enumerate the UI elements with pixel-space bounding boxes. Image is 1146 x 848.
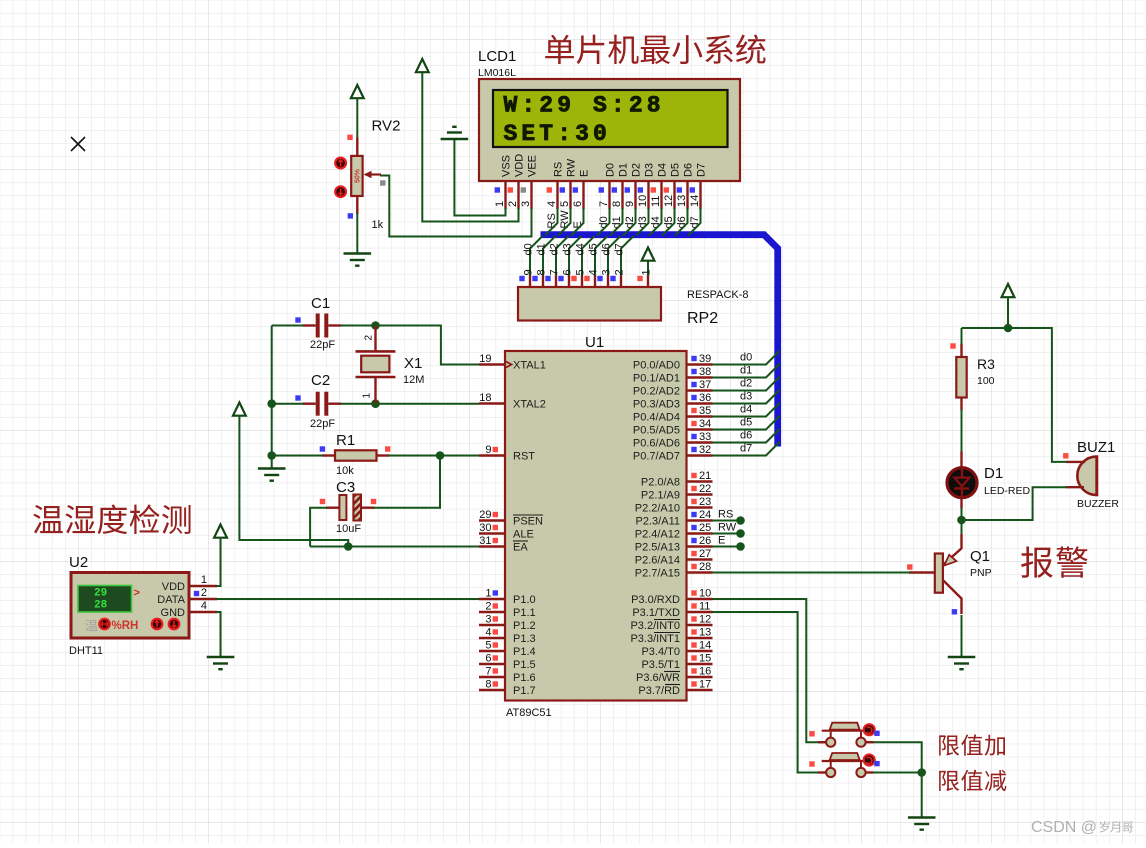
- net labels d0-d7 at U1: [740, 352, 752, 455]
- wire RV2 to ground: [356, 213, 358, 253]
- svg-text:d6: d6: [740, 430, 752, 442]
- svg-text:32: 32: [699, 444, 711, 456]
- wire R3 to D1: [961, 410, 963, 453]
- svg-text:10k: 10k: [336, 465, 354, 477]
- svg-text:W:29 S:28: W:29 S:28: [504, 93, 665, 119]
- svg-text:XTAL2: XTAL2: [513, 399, 546, 411]
- svg-text:21: 21: [699, 470, 711, 482]
- svg-text:2: 2: [507, 201, 519, 207]
- svg-text:d0: d0: [523, 243, 535, 255]
- wire to buttons ground: [921, 773, 923, 818]
- U1 right pin numbers: [691, 353, 711, 691]
- node R1 left: [267, 451, 276, 460]
- RV2 label: [372, 118, 401, 135]
- svg-text:29: 29: [479, 509, 491, 521]
- wire node to buzzer bottom: [962, 487, 1068, 520]
- svg-text:6: 6: [562, 269, 574, 275]
- svg-text:P3.7/RD: P3.7/RD: [638, 685, 680, 697]
- svg-text:25: 25: [699, 522, 711, 534]
- svg-text:BUZ1: BUZ1: [1077, 439, 1115, 456]
- svg-text:P3.1/TXD: P3.1/TXD: [632, 607, 680, 619]
- power arrow for LCD VDD: [416, 59, 429, 72]
- svg-text:PNP: PNP: [970, 567, 992, 579]
- node C2 left: [267, 399, 276, 408]
- svg-text:d2: d2: [624, 216, 636, 228]
- svg-text:d1: d1: [740, 365, 752, 377]
- svg-text:U2: U2: [69, 554, 88, 571]
- SW1 left pin: [818, 741, 826, 743]
- ground below Q1: [948, 657, 976, 669]
- U2 label: [69, 554, 88, 571]
- svg-text:P2.0/A8: P2.0/A8: [641, 477, 680, 489]
- ground below buttons: [908, 818, 936, 830]
- LCD LM016L label: [478, 67, 516, 79]
- RESPACK-8 label: [687, 289, 749, 301]
- wire RP2 pin1 to power: [647, 260, 649, 276]
- svg-text:5: 5: [559, 201, 571, 207]
- svg-text:28: 28: [94, 600, 108, 612]
- wire VCC node alarm: [962, 297, 1052, 328]
- svg-text:RW: RW: [566, 158, 578, 177]
- svg-text:6: 6: [485, 653, 491, 665]
- button SW1 (限值加): [822, 723, 875, 747]
- wire R1 left: [272, 455, 323, 457]
- svg-text:d6: d6: [601, 243, 613, 255]
- svg-text:P1.0: P1.0: [513, 594, 536, 606]
- svg-text:9: 9: [485, 444, 491, 456]
- svg-text:36: 36: [699, 392, 711, 404]
- wire R1 right to RST: [389, 455, 480, 457]
- svg-text:22: 22: [699, 483, 711, 495]
- Q1 value PNP: [970, 567, 992, 579]
- svg-text:R1: R1: [336, 432, 355, 449]
- svg-text:50%: 50%: [355, 168, 362, 183]
- svg-text:CSDN @: CSDN @: [1031, 819, 1097, 836]
- svg-text:d7: d7: [614, 243, 626, 255]
- svg-text:P2.3/A11: P2.3/A11: [636, 516, 680, 528]
- X1 pin number 2: [364, 335, 375, 341]
- power arrow for U2 VDD: [214, 525, 227, 538]
- X1 value 12M: [403, 374, 424, 386]
- Q1 label: [970, 548, 990, 565]
- svg-text:17: 17: [699, 679, 711, 691]
- svg-text:RESPACK-8: RESPACK-8: [687, 289, 749, 301]
- wire VCC to R3: [961, 328, 963, 345]
- svg-text:P2.2/A10: P2.2/A10: [635, 503, 680, 515]
- svg-text:37: 37: [699, 379, 711, 391]
- svg-text:39: 39: [699, 353, 711, 365]
- U2 value DHT11: [69, 645, 103, 657]
- svg-text:2: 2: [485, 601, 491, 613]
- ground below U2: [207, 657, 235, 669]
- R3 value 100: [977, 375, 995, 387]
- svg-text:19: 19: [479, 353, 491, 365]
- svg-text:P1.5: P1.5: [513, 659, 536, 671]
- svg-text:d4: d4: [650, 216, 662, 228]
- svg-text:8: 8: [536, 269, 548, 275]
- svg-text:d4: d4: [575, 243, 587, 255]
- svg-text:P2.5/A13: P2.5/A13: [635, 542, 680, 554]
- svg-text:D1: D1: [618, 163, 630, 177]
- ground (flipped) for LCD VSS: [441, 127, 469, 139]
- svg-text:RP2: RP2: [687, 310, 718, 327]
- watermark CSDN: [1031, 819, 1133, 836]
- U1 right pin names: [630, 360, 680, 698]
- SW2 left pin: [818, 771, 826, 773]
- svg-text:d2: d2: [549, 243, 561, 255]
- svg-text:d1: d1: [611, 216, 623, 228]
- wire C3 left to EA line: [310, 508, 327, 547]
- svg-text:VEE: VEE: [527, 155, 539, 177]
- wire U2 VDD to power: [216, 537, 221, 586]
- svg-text:P1.2: P1.2: [513, 620, 536, 632]
- svg-text:P3.2/INT0: P3.2/INT0: [630, 620, 680, 632]
- svg-text:d0: d0: [598, 216, 610, 228]
- svg-text:9: 9: [624, 201, 636, 207]
- svg-text:100: 100: [977, 375, 995, 387]
- svg-text:1: 1: [201, 574, 207, 586]
- svg-text:d2: d2: [740, 378, 752, 390]
- resistor R1: [322, 450, 390, 460]
- svg-text:d4: d4: [740, 404, 752, 416]
- svg-text:P0.1/AD1: P0.1/AD1: [633, 373, 680, 385]
- wires LCD data pins to bus: [545, 208, 701, 236]
- X1 pin2 wire: [374, 326, 376, 352]
- C1 label: [311, 295, 330, 312]
- power arrow above RV2: [351, 85, 364, 98]
- LCD LCD1 label: [478, 48, 516, 65]
- svg-text:P3.3/INT1: P3.3/INT1: [630, 633, 680, 645]
- svg-text:11: 11: [650, 196, 662, 207]
- capacitor C3 (electrolytic): [326, 495, 375, 521]
- resistor R3: [956, 344, 966, 411]
- RP2 pins: [530, 275, 648, 289]
- svg-text:38: 38: [699, 366, 711, 378]
- svg-text:D2: D2: [631, 163, 643, 177]
- svg-text:P0.2/AD2: P0.2/AD2: [633, 386, 680, 398]
- LCD screen text line1: [504, 93, 665, 119]
- svg-text:d7: d7: [689, 216, 701, 228]
- node X1 pin2: [371, 321, 380, 330]
- svg-text:D3: D3: [644, 163, 656, 177]
- svg-text:d6: d6: [676, 216, 688, 228]
- svg-text:AT89C51: AT89C51: [506, 707, 552, 719]
- label 限值减: [939, 770, 1006, 791]
- wire EA line: [310, 546, 479, 548]
- svg-text:P1.3: P1.3: [513, 633, 536, 645]
- U2 DATA status square: [194, 591, 199, 596]
- svg-text:P0.5/AD5: P0.5/AD5: [633, 425, 680, 437]
- svg-text:4: 4: [201, 600, 207, 612]
- svg-text:P3.6/WR: P3.6/WR: [636, 672, 680, 684]
- wire SW1 right to ground net: [866, 742, 922, 772]
- wire Q1 collector to ground: [961, 615, 963, 657]
- Q1 base status square: [907, 564, 912, 569]
- U1 body AT89C51: [505, 351, 687, 701]
- wire left vertical C1-C2-R1: [271, 326, 273, 457]
- svg-text:13: 13: [699, 627, 711, 639]
- svg-text:22pF: 22pF: [310, 339, 335, 351]
- svg-text:2: 2: [201, 587, 207, 599]
- C3 value 10uF: [336, 523, 361, 535]
- C2 label: [311, 372, 330, 389]
- C1 value 22pF: [310, 339, 335, 351]
- X1 pin number 1: [362, 393, 373, 399]
- LCD pin name labels: [501, 154, 708, 177]
- svg-text:4: 4: [588, 269, 600, 275]
- svg-text:28: 28: [699, 561, 711, 573]
- svg-text:P1.1: P1.1: [513, 607, 536, 619]
- svg-text:ALE: ALE: [513, 529, 534, 541]
- svg-text:31: 31: [479, 535, 491, 547]
- U2 screen: [78, 586, 132, 613]
- svg-text:P2.4/A12: P2.4/A12: [635, 529, 680, 541]
- wire VEE to RV2 wiper: [380, 176, 532, 237]
- svg-text:26: 26: [699, 535, 711, 547]
- RV2 top pin: [356, 138, 358, 157]
- BUZ1 label: [1077, 439, 1115, 456]
- wire C1 right to XTAL1: [340, 326, 479, 365]
- svg-text:XTAL1: XTAL1: [513, 360, 546, 372]
- LCD screen text line2: [504, 121, 611, 147]
- C3 label: [336, 479, 355, 496]
- svg-text:%RH: %RH: [112, 620, 139, 632]
- RV2 top status square: [347, 135, 352, 140]
- RV2 adjust up icon: [335, 158, 346, 169]
- wire C2 right to XTAL2: [340, 403, 479, 405]
- wire VDD to power: [422, 71, 518, 222]
- wires RP2 pins to bus: [530, 236, 634, 276]
- node alarm VCC: [1004, 324, 1013, 333]
- svg-text:P0.7/AD7: P0.7/AD7: [633, 451, 680, 463]
- wire U2 DATA to U1 P1.0: [216, 598, 479, 600]
- svg-text:d5: d5: [663, 216, 675, 228]
- label 温湿度检测: [33, 504, 190, 534]
- svg-text:E: E: [718, 535, 725, 547]
- wire C3 right to RST node: [374, 456, 441, 508]
- SW1 status squares: [809, 731, 879, 737]
- svg-text:X1: X1: [404, 355, 422, 372]
- C2 status square: [295, 395, 300, 400]
- origin marker X: [71, 137, 85, 151]
- svg-text:P1.7: P1.7: [513, 685, 536, 697]
- LCD screen: [493, 90, 728, 147]
- svg-text:4: 4: [485, 627, 491, 639]
- svg-text:22pF: 22pF: [310, 418, 335, 430]
- svg-text:5: 5: [575, 269, 587, 275]
- svg-text:4: 4: [546, 201, 558, 207]
- capacitor C1: [303, 314, 342, 338]
- RV2 adjust down icon: [335, 186, 346, 197]
- crystal X1: [356, 351, 396, 377]
- C2 value 22pF: [310, 418, 335, 430]
- svg-text:P0.3/AD3: P0.3/AD3: [633, 399, 680, 411]
- R1 status squares: [320, 446, 391, 451]
- wire C2 left: [272, 403, 304, 405]
- svg-text:30: 30: [479, 522, 491, 534]
- svg-text:10uF: 10uF: [336, 523, 361, 535]
- svg-text:3: 3: [485, 614, 491, 626]
- button SW2 (限值减): [822, 753, 875, 777]
- svg-text:RV2: RV2: [372, 118, 401, 135]
- svg-text:d3: d3: [562, 243, 574, 255]
- svg-text:12: 12: [663, 195, 675, 207]
- svg-text:2: 2: [364, 335, 375, 341]
- wire U2 GND to ground: [216, 612, 221, 657]
- svg-text:RS: RS: [546, 213, 558, 228]
- svg-text:P0.4/AD4: P0.4/AD4: [633, 412, 680, 424]
- svg-text:R3: R3: [977, 356, 995, 372]
- BUZ1 status square: [1063, 453, 1068, 458]
- svg-text:LCD1: LCD1: [478, 48, 516, 65]
- node EA VCC junction: [344, 542, 353, 551]
- svg-text:DATA: DATA: [157, 594, 185, 606]
- svg-text:D6: D6: [683, 163, 695, 177]
- buzzer BUZ1: [1066, 455, 1097, 496]
- R3 status square: [950, 343, 955, 348]
- wire SW2 right to ground net: [866, 771, 922, 773]
- wires U1 P0 to bus d0-d7: [713, 351, 780, 456]
- svg-text:SET:30: SET:30: [504, 121, 611, 147]
- svg-text:D5: D5: [670, 163, 682, 177]
- svg-text:8: 8: [611, 201, 623, 207]
- svg-text:U1: U1: [585, 334, 604, 351]
- svg-text:11: 11: [699, 601, 710, 613]
- svg-text:6: 6: [572, 201, 584, 207]
- svg-text:LED-RED: LED-RED: [984, 485, 1031, 497]
- svg-text:27: 27: [699, 548, 711, 560]
- svg-text:RST: RST: [513, 451, 535, 463]
- power arrow at RP2 pin1: [642, 248, 655, 261]
- transistor Q1 PNP: [909, 534, 962, 614]
- wire VCC to buzzer top: [1052, 327, 1067, 462]
- node RST: [436, 451, 445, 460]
- svg-text:2: 2: [614, 269, 626, 275]
- RV2 bottom pin: [356, 196, 358, 215]
- wires U1 P2.3-P2.5 RS RW E stubs: [713, 516, 745, 551]
- Q1 collector status square: [952, 609, 957, 614]
- wire node to Q1 emitter: [961, 520, 963, 535]
- svg-text:E: E: [579, 170, 591, 177]
- svg-text:P3.5/T1: P3.5/T1: [641, 659, 680, 671]
- svg-text:33: 33: [699, 431, 711, 443]
- svg-text:BUZZER: BUZZER: [1077, 498, 1119, 510]
- U1 value AT89C51: [506, 707, 552, 719]
- svg-text:d5: d5: [740, 417, 752, 429]
- U2 pin names: [157, 581, 185, 619]
- label 报警: [1021, 546, 1088, 577]
- svg-text:Q1: Q1: [970, 548, 990, 565]
- svg-text:d1: d1: [536, 243, 548, 255]
- svg-text:29: 29: [94, 588, 107, 600]
- wire C1 left: [272, 325, 304, 327]
- svg-text:VDD: VDD: [162, 581, 185, 593]
- svg-text:D1: D1: [984, 465, 1003, 482]
- U2 humidity icon: [85, 619, 179, 632]
- svg-text:24: 24: [699, 509, 711, 521]
- svg-text:7: 7: [549, 269, 561, 275]
- svg-text:14: 14: [689, 195, 701, 207]
- svg-text:RS: RS: [718, 509, 733, 521]
- svg-text:d5: d5: [588, 243, 600, 255]
- RV2 body: [351, 156, 362, 196]
- wire R1 left to ground: [271, 456, 273, 469]
- C1 status square: [295, 317, 300, 322]
- svg-text:P2.6/A14: P2.6/A14: [635, 555, 680, 567]
- R1 value 10k: [336, 465, 354, 477]
- wire P2.7 to Q1 base: [713, 572, 911, 574]
- svg-text:5: 5: [485, 640, 491, 652]
- svg-text:P3.4/T0: P3.4/T0: [641, 646, 680, 658]
- X1 pin1 wire: [374, 377, 376, 404]
- RV2 bottom status square: [348, 213, 353, 218]
- node buttons ground: [917, 768, 926, 777]
- svg-text:1: 1: [362, 393, 373, 399]
- power arrow VCC for EA: [233, 403, 246, 416]
- RP2 pin numbers and net labels: [519, 243, 652, 281]
- U2 pins: [189, 586, 217, 612]
- RV2 value 1k: [372, 219, 384, 231]
- U2 arrow mark: [134, 587, 140, 599]
- svg-text:P0.6/AD6: P0.6/AD6: [633, 438, 680, 450]
- power arrow alarm VCC: [1002, 284, 1015, 297]
- R3 label: [977, 356, 995, 372]
- svg-text:DHT11: DHT11: [69, 645, 103, 657]
- node X1 pin1: [371, 399, 380, 408]
- RP2 label: [687, 310, 718, 327]
- svg-text:RW: RW: [718, 522, 737, 534]
- svg-text:P1.6: P1.6: [513, 672, 536, 684]
- LED D1: [947, 452, 977, 509]
- svg-text:d3: d3: [637, 216, 649, 228]
- BUZ1 value BUZZER: [1077, 498, 1119, 510]
- wire VSS to ground: [454, 139, 505, 216]
- svg-text:1: 1: [494, 201, 506, 207]
- wire P3.1 to SW2: [713, 612, 827, 773]
- svg-text:d7: d7: [740, 443, 752, 455]
- svg-text:>: >: [134, 587, 140, 599]
- svg-text:12M: 12M: [403, 374, 424, 386]
- svg-text:1k: 1k: [372, 219, 384, 231]
- svg-text:d0: d0: [740, 352, 752, 364]
- ground below R1 left: [258, 469, 286, 481]
- svg-text:RS: RS: [553, 162, 565, 177]
- svg-text:16: 16: [699, 666, 711, 678]
- LCD wire net labels RS RW E d0-d7: [546, 210, 701, 229]
- svg-text:10: 10: [699, 588, 711, 600]
- svg-text:7: 7: [598, 201, 610, 207]
- svg-text:GND: GND: [161, 607, 186, 619]
- svg-text:3: 3: [601, 269, 613, 275]
- svg-text:P3.0/RXD: P3.0/RXD: [631, 594, 680, 606]
- title text 单片机最小系统: [545, 34, 765, 64]
- svg-text:P2.7/A15: P2.7/A15: [635, 568, 680, 580]
- label 限值加: [939, 734, 1005, 755]
- net labels RS RW E at U1: [718, 509, 737, 547]
- svg-text:EA: EA: [513, 542, 528, 554]
- svg-text:C2: C2: [311, 372, 330, 389]
- LCD LCD1 body: [479, 79, 740, 181]
- U1 right pins: [687, 365, 713, 691]
- U2 body DHT11: [71, 573, 189, 639]
- svg-text:35: 35: [699, 405, 711, 417]
- U1 left pin names: [513, 360, 546, 698]
- wire VCC arrow to EA line: [239, 415, 348, 547]
- D1 label: [984, 465, 1003, 482]
- svg-text:PSEN: PSEN: [513, 516, 543, 528]
- wire power to RV2: [356, 98, 358, 139]
- C3 status squares: [320, 499, 376, 504]
